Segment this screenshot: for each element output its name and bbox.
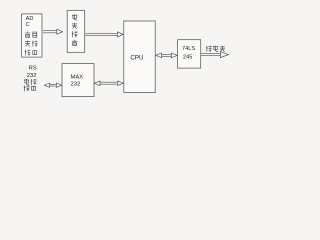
svg-text:74LS: 74LS [182,46,195,52]
label 控制线 (control lines) [206,46,212,52]
label 转 [72,31,78,37]
label 平 [72,23,77,29]
svg-text:RS: RS [29,66,37,72]
bus arrow: MAX232 to CPU (bidirectional) [94,81,123,86]
label 通信 (communication) [24,79,29,85]
label 接口 (interface) [25,50,31,56]
box: ADC data acquisition interface [22,14,42,57]
wire arrow: level-shift box to CPU [85,32,123,37]
svg-text:245: 245 [183,55,192,61]
label 接口 (port) [24,85,30,91]
wire arrow: ADC box to level-shift box [43,29,63,34]
box: 74LS245 bus driver [178,40,201,68]
output arrow: 74LS245 to control lines [201,52,229,58]
label 换 [72,40,77,46]
svg-text:232: 232 [27,73,37,79]
label 采集 (acquisition) [25,41,30,47]
box: level converter [67,10,85,52]
box: CPU [124,21,155,93]
label 数据 (data) [25,32,30,38]
bus arrow: CPU to 74LS245 (bidirectional) [156,53,177,58]
bus arrow: RS232 port to MAX232 (bidirectional) [44,83,61,87]
box: MAX232 [62,64,94,97]
svg-text:MAX: MAX [71,74,84,80]
svg-text:232: 232 [71,81,81,87]
svg-text:CPU: CPU [130,54,143,61]
svg-text:C: C [26,22,30,28]
label 电 [72,14,77,20]
